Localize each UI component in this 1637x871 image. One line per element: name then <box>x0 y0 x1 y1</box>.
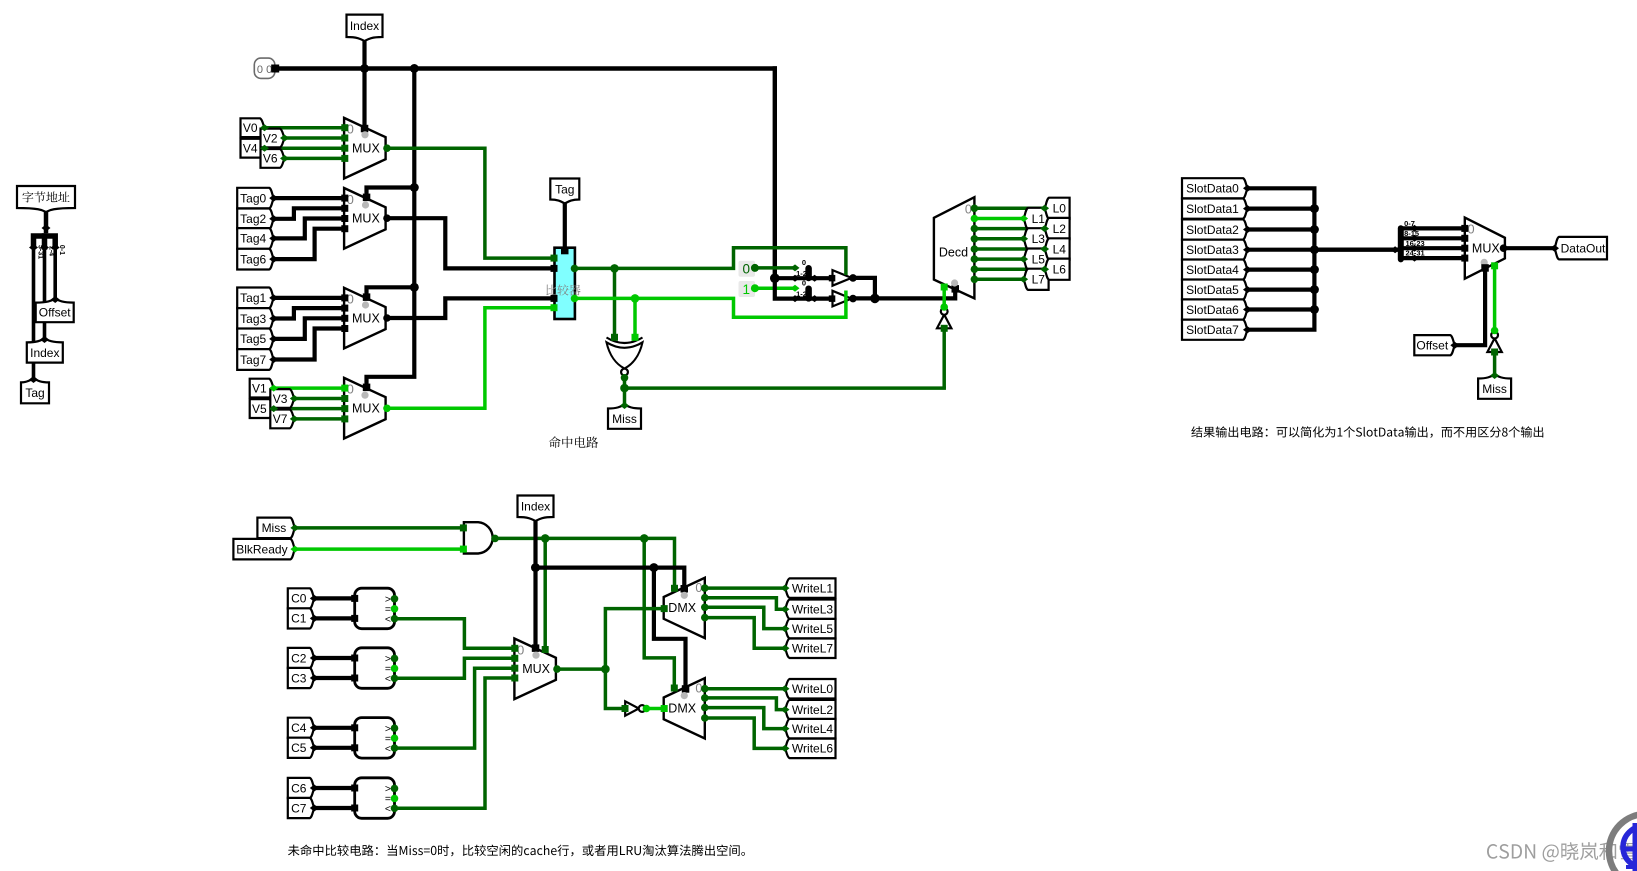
svg-text:L1: L1 <box>1032 212 1046 226</box>
svg-text:WriteL0: WriteL0 <box>792 682 833 696</box>
pin diamond L5 tip <box>1019 256 1028 263</box>
wire S2 leg 8-15 to MUX U7 pin 1 <box>1401 236 1465 240</box>
wire SlotData0 feed <box>1248 188 1315 249</box>
wire main 32-bit bus to splitter S2 <box>1314 247 1398 251</box>
enable dot Decd <box>951 279 958 286</box>
wire D1 out1 to WriteL3 <box>701 594 709 602</box>
tunnel SlotData3 <box>1182 240 1248 260</box>
svg-text:V5: V5 <box>252 402 267 416</box>
wire EQ0 down to XNOR input 1 <box>613 268 617 338</box>
splitter SP1 (address to Tag/Index/Offset) <box>34 236 56 247</box>
wire U1 output to comparator pin A <box>383 144 391 152</box>
wire S2 leg 0-7 to MUX U7 pin 0 <box>1401 226 1465 230</box>
pin diamond DataOut <box>1550 245 1559 252</box>
watermark logo ring <box>1609 814 1637 871</box>
svg-text:C2: C2 <box>291 651 307 665</box>
wire Index select to DMX D1 <box>536 568 685 589</box>
tunnel SlotData1 <box>1182 199 1248 219</box>
decoder U6 Decd <box>934 197 975 298</box>
wire SlotData7 feed <box>1248 250 1315 330</box>
svg-text:SlotData7: SlotData7 <box>1186 323 1239 337</box>
pin diamond V0 <box>260 124 269 131</box>
wire C2 to compare block <box>314 656 354 660</box>
wire U3 output to comparator pin C <box>383 314 391 322</box>
tunnel WriteL3 <box>785 600 836 620</box>
svg-text:WriteL6: WriteL6 <box>792 742 833 756</box>
svg-text:WriteL4: WriteL4 <box>792 722 833 736</box>
junction buffer outputs <box>870 294 880 304</box>
pin diamond SlotData4 <box>1243 266 1252 273</box>
wire N1 output to Decd enable <box>940 303 948 311</box>
pin diamond Tag3 <box>269 315 278 322</box>
wire C5 to compare block <box>314 746 354 750</box>
watermark logo blue mark <box>1623 826 1637 868</box>
wire Miss net to inverter N1 input <box>942 329 946 387</box>
wire SlotData6 feed <box>1248 307 1315 311</box>
tunnel C6 <box>288 778 315 798</box>
wire Tag to comparator top pin <box>563 203 567 250</box>
tunnel WriteL4 <box>785 719 836 739</box>
pin diamond Tag0 <box>269 195 278 202</box>
wire enable branch to MUX U8 <box>543 538 547 649</box>
svg-text:C6: C6 <box>291 781 307 795</box>
wire Miss net east run <box>625 386 945 390</box>
pin diamond C2 <box>310 655 319 662</box>
wire compare3 to MUX U8 pin 2 <box>395 668 515 748</box>
pin diamond WriteL5 <box>781 625 790 632</box>
enable dot D2 <box>681 692 688 699</box>
pin lt output dot C0C1 <box>391 615 399 623</box>
tunnel V2 <box>261 129 285 148</box>
wire select bus down beside MUX column to U4 <box>367 69 415 388</box>
wire SlotData3 feed <box>1248 248 1315 252</box>
junction EQ0 to XNOR <box>610 264 619 273</box>
tunnel V0 <box>241 118 265 137</box>
wire 2-bit constant bus from input pin <box>275 66 775 70</box>
svg-text:L3: L3 <box>1032 232 1046 246</box>
tunnel Tag7 <box>237 349 274 370</box>
tunnel Miss (right section) <box>1478 375 1511 399</box>
enable dot U1 <box>361 131 368 138</box>
probe P0 attach dot <box>751 264 759 272</box>
svg-text:V7: V7 <box>273 412 288 426</box>
svg-text:MUX: MUX <box>352 402 380 416</box>
pin diamond Tag4 <box>269 235 278 242</box>
tunnel L0 <box>1045 198 1070 219</box>
wire D2 out3 to WriteL6 <box>701 714 709 722</box>
pin diamond Tag6 <box>269 256 278 263</box>
tunnel DataOut <box>1555 237 1608 260</box>
pin lt output dot C2C3 <box>391 675 399 683</box>
junction constant-bus branch at x415 <box>410 64 419 73</box>
tunnel Miss (bottom input) <box>257 518 295 539</box>
wire Tag3 to MUX U3 pin 1 <box>274 308 344 318</box>
wire vertical 2-bit bus down to way-splitters <box>773 69 777 279</box>
wire C6 to compare block <box>314 786 354 790</box>
pin gt output dot C0C1 <box>391 595 399 603</box>
pin diamond Index tunnel <box>40 336 49 343</box>
wire N3 output to DMX D2 data input <box>643 705 651 713</box>
pin eq output dot C4C5 <box>391 734 399 742</box>
pin gt output dot C4C5 <box>391 724 399 732</box>
pin diamond L4 tip <box>1040 246 1049 253</box>
op-amp U4 MUX (valid bits odd ways) <box>344 378 386 439</box>
wire comparator output EQ1 net <box>571 295 579 303</box>
wire Tag0 to MUX U2 pin 0 <box>274 196 344 200</box>
tunnel C1 <box>288 608 315 628</box>
tunnel SlotData5 <box>1182 280 1248 300</box>
wire B0 output to select bus <box>849 274 857 282</box>
tunnel L2 <box>1045 218 1070 239</box>
tunnel V4 <box>241 139 265 158</box>
wire Decd out2 to L2 <box>971 225 979 233</box>
tunnel SlotData4 <box>1182 260 1248 280</box>
pin diamond L1 tip <box>1019 215 1028 222</box>
wire compare2 to MUX U8 pin 1 <box>395 658 515 678</box>
pin diamond WriteL1 <box>781 585 790 592</box>
wire U8 output up to DMX D1 data input <box>605 609 663 670</box>
tunnel SlotData0 <box>1182 178 1248 198</box>
wire enable branch to DMX D2 <box>644 538 674 688</box>
pin gt output dot C2C3 <box>391 655 399 663</box>
svg-text:<: < <box>385 803 391 815</box>
wire Tag7 to MUX U3 pin 3 <box>274 329 344 360</box>
pin diamond V4 <box>260 145 269 152</box>
pin diamond SlotData1 <box>1243 205 1252 212</box>
enable dot D1 <box>681 592 688 599</box>
pin diamond Miss bottom <box>290 524 299 531</box>
probe P1 on EQ1 wire <box>739 281 756 297</box>
tunnel L1 <box>1024 208 1049 229</box>
caption 命中电路 <box>549 436 598 448</box>
pin eq output dot C0C1 <box>391 605 399 613</box>
junction Miss net <box>620 384 629 393</box>
pin diamond SlotData0 <box>1243 185 1252 192</box>
comparator U5 比较器 (custom subcircuit) <box>555 248 575 319</box>
svg-text:0: 0 <box>743 262 751 277</box>
svg-text:24-31: 24-31 <box>1406 249 1425 258</box>
wire Decd out4 to L4 <box>971 245 979 253</box>
pin diamond Offset tunnel <box>51 296 60 303</box>
pin diamond Miss right <box>1490 372 1499 379</box>
junction SlotData6 <box>1310 305 1319 314</box>
wire compare4 to MUX U8 pin 3 <box>395 678 515 808</box>
pin lt output dot C6C7 <box>391 805 399 813</box>
svg-text:Miss: Miss <box>262 521 287 535</box>
svg-text:DMX: DMX <box>668 702 696 716</box>
tunnel Tag4 <box>237 228 274 249</box>
splitter S2 spine (32-bit fan out) <box>1398 228 1404 259</box>
svg-text:Decd: Decd <box>939 245 968 259</box>
tunnel WriteL5 <box>785 619 836 639</box>
wire U8 output down to inverter N3 <box>605 669 624 708</box>
junction 2-bit bus into splitter legs <box>770 273 780 283</box>
svg-text:C5: C5 <box>291 741 307 755</box>
pin diamond V7 <box>290 415 299 422</box>
svg-text:Miss: Miss <box>612 412 637 426</box>
wire V5 to MUX U4 pin 2 <box>274 407 344 411</box>
wire select branch to MUX U3 <box>367 287 415 297</box>
pin diamond C3 <box>310 675 319 682</box>
wire SlotData5 feed <box>1248 288 1315 292</box>
demux D2 (even write lines) <box>664 678 705 738</box>
tunnel Index (bottom select) <box>518 496 554 522</box>
wire U2 output to comparator pin B <box>383 214 391 222</box>
junction SlotData4 <box>1310 265 1319 274</box>
tunnel Miss (hit circuit output) <box>608 405 641 429</box>
svg-text:Tag0: Tag0 <box>240 191 266 205</box>
tunnel Tag (top, compare source) <box>550 179 579 204</box>
svg-text:L4: L4 <box>1053 242 1067 256</box>
svg-text:V6: V6 <box>263 152 278 166</box>
comparator block C2/C3 <box>355 648 395 689</box>
pin diamond WriteL7 <box>781 645 790 652</box>
wire V3 to MUX U4 pin 1 <box>294 397 344 401</box>
tunnel V1 <box>250 379 274 398</box>
svg-text:BlkReady: BlkReady <box>236 542 287 556</box>
wire probe P1 to way-splitter S1 bit0 leg <box>755 286 795 290</box>
wire Tag4 to MUX U2 pin 2 <box>274 219 344 239</box>
svg-text:Tag7: Tag7 <box>240 353 266 367</box>
svg-text:SlotData5: SlotData5 <box>1186 283 1239 297</box>
op-amp U1 MUX (valid bits even ways) <box>344 118 386 179</box>
tunnel Tag3 <box>237 308 274 329</box>
wire Decd out0 to L0 <box>971 205 979 213</box>
wire Tag1 to MUX U3 pin 0 <box>274 296 344 300</box>
pin diamond WriteL6 <box>781 745 790 752</box>
pin diamond SlotData5 <box>1243 286 1252 293</box>
wire D2 out0 to WriteL0 <box>701 685 709 693</box>
pin diamond SlotData7 <box>1243 326 1252 333</box>
pin diamond C6 <box>310 785 319 792</box>
comparator block C4/C5 <box>355 718 395 759</box>
svg-text:WriteL3: WriteL3 <box>792 603 833 617</box>
pin diamond WriteL4 <box>781 725 790 732</box>
pin diamond V1 <box>269 385 278 392</box>
wire bus to splitter S0 leg 1-2 and buffer B0 <box>775 276 832 280</box>
svg-text:0-1: 0-1 <box>58 245 65 255</box>
svg-text:Offset: Offset <box>39 306 71 320</box>
pin diamond C0 <box>310 595 319 602</box>
tunnel C3 <box>288 668 315 688</box>
tunnel C5 <box>288 738 315 758</box>
wire Decd out7 to L7 <box>971 276 979 284</box>
junction SlotData5 <box>1310 285 1319 294</box>
tunnel Tag0 <box>237 188 274 209</box>
svg-text:C3: C3 <box>291 671 307 685</box>
wire Decd out3 to L3 <box>971 235 979 243</box>
wire Tag6 to MUX U2 pin 3 <box>274 229 344 259</box>
tunnel WriteL1 <box>785 578 836 598</box>
pin diamond C7 <box>310 805 319 812</box>
tunnel WriteL2 <box>785 700 836 720</box>
svg-text:SlotData2: SlotData2 <box>1186 223 1239 237</box>
pin diamond V6 <box>280 155 289 162</box>
tunnel L7 <box>1024 269 1049 290</box>
svg-text:Tag: Tag <box>555 182 574 196</box>
svg-text:8-15: 8-15 <box>1404 229 1419 238</box>
svg-text:<: < <box>385 614 391 626</box>
wire B1 output to select bus <box>849 295 857 303</box>
svg-text:MUX: MUX <box>352 212 380 226</box>
wire U8 output net <box>553 665 561 673</box>
tunnel V3 <box>270 389 294 408</box>
wire Miss to N2 input <box>1493 353 1497 377</box>
svg-text:Tag2: Tag2 <box>240 212 266 226</box>
pin diamond SlotData6 <box>1243 306 1252 313</box>
wire SlotData1 feed <box>1248 207 1315 211</box>
tunnel L3 <box>1024 228 1049 249</box>
tunnel C4 <box>288 718 315 738</box>
wire Index select vertical to MUX U1 <box>362 40 366 129</box>
svg-text:0: 0 <box>802 258 806 267</box>
junction SlotData2 <box>1310 225 1319 234</box>
svg-text:WriteL5: WriteL5 <box>792 622 833 636</box>
xnor gate G1 (hit detect, points down) <box>607 338 643 344</box>
wire S2 leg 16-23 to MUX U7 pin 2 <box>1401 246 1465 250</box>
svg-text:Index: Index <box>350 19 379 33</box>
wire bus to splitter S1 leg 1-2 and buffer B1 <box>775 278 832 298</box>
junction Index select branch <box>531 563 540 572</box>
svg-text:MUX: MUX <box>522 662 550 676</box>
tunnel Index (left) <box>27 338 63 362</box>
pin diamond L3 tip <box>1019 235 1028 242</box>
junction Index/constant bus <box>360 64 369 73</box>
svg-text:Tag: Tag <box>25 386 44 400</box>
pin diamond L7 tip <box>1019 276 1028 283</box>
svg-text:L6: L6 <box>1053 263 1067 277</box>
wire Offset to U7 select <box>1455 268 1485 345</box>
tunnel Tag2 <box>237 209 274 230</box>
svg-text:SlotData4: SlotData4 <box>1186 263 1239 277</box>
pin diamond Offset right <box>1450 342 1459 349</box>
wire U7 output to DataOut <box>1500 244 1508 252</box>
pin diamond BlkReady <box>290 546 299 553</box>
tunnel C2 <box>288 648 315 668</box>
svg-text:WriteL2: WriteL2 <box>792 703 833 717</box>
pin diamond Tag7 <box>269 356 278 363</box>
wire Miss to AND gate G2 <box>295 526 464 530</box>
pin eq output dot C6C7 <box>391 795 399 803</box>
tunnel WriteL7 <box>785 639 836 659</box>
pin diamond Tag1 <box>269 294 278 301</box>
svg-text:Tag5: Tag5 <box>240 332 266 346</box>
caption 结果输出电路 <box>1191 426 1543 438</box>
pin diamond WriteL0 <box>781 685 790 692</box>
pin diamond SlotData3 <box>1243 246 1252 253</box>
tunnel WriteL0 <box>785 679 836 699</box>
svg-text:Index: Index <box>521 500 550 514</box>
tunnel Offset (left) <box>36 299 74 323</box>
svg-text:SlotData0: SlotData0 <box>1186 182 1239 196</box>
junction enable to MUX U8 <box>541 534 550 543</box>
pin diamond Tag5 <box>269 335 278 342</box>
op-amp U2 MUX (tag even ways) <box>344 188 386 249</box>
svg-text:Miss: Miss <box>1482 382 1507 396</box>
tunnel V7 <box>270 410 294 429</box>
pin diamond V3 <box>290 395 299 402</box>
wire N2 output to U7 enable <box>1491 327 1499 335</box>
svg-text:V1: V1 <box>252 381 267 395</box>
wire S2 leg 24-31 to MUX U7 pin 3 <box>1401 256 1465 260</box>
wire SlotData2 feed <box>1248 227 1315 231</box>
svg-text:2-4: 2-4 <box>48 246 55 256</box>
svg-text:5-31: 5-31 <box>37 245 44 259</box>
wire select branch to MUX U2 <box>367 188 415 198</box>
wire G1 output node Miss <box>621 374 629 382</box>
pin diamond WriteL2 <box>781 706 790 713</box>
svg-text:Tag4: Tag4 <box>240 232 266 246</box>
svg-text:MUX: MUX <box>352 311 380 325</box>
svg-text:V4: V4 <box>243 142 258 156</box>
wire Index select net vertical <box>533 520 537 648</box>
svg-text:0: 0 <box>1467 221 1474 236</box>
enable dot U4 <box>361 392 368 399</box>
svg-text:1-2: 1-2 <box>796 269 807 278</box>
pin diamond L2 tip <box>1040 225 1049 232</box>
junction EQ1 to XNOR <box>631 294 640 303</box>
wire C4 to compare block <box>314 726 354 730</box>
wire select bus to decoder Decd <box>853 290 955 299</box>
pin gt output dot C6C7 <box>391 785 399 793</box>
label 比较器 <box>546 284 580 295</box>
svg-text:C7: C7 <box>291 801 307 815</box>
svg-text:SlotData6: SlotData6 <box>1186 303 1239 317</box>
pin diamond C5 <box>310 744 319 751</box>
pin diamond V5 <box>269 405 278 412</box>
wire compare1 to MUX U8 pin 0 <box>395 619 515 649</box>
svg-text:L0: L0 <box>1053 202 1067 216</box>
svg-text:L2: L2 <box>1053 222 1067 236</box>
pin diamond SlotData2 <box>1243 226 1252 233</box>
comparator block C6/C7 <box>355 778 395 819</box>
tunnel V6 <box>261 149 285 168</box>
tunnel V5 <box>250 399 274 418</box>
pin diamond Tag2 <box>269 215 278 222</box>
svg-text:16-23: 16-23 <box>1406 239 1425 248</box>
svg-text:0: 0 <box>257 64 263 76</box>
wire Tag2 to MUX U2 pin 1 <box>274 208 344 219</box>
svg-text:SlotData3: SlotData3 <box>1186 243 1239 257</box>
tunnel C0 <box>288 588 315 608</box>
tunnel Tag5 <box>237 329 274 350</box>
wire D1 out2 to WriteL5 <box>701 604 709 612</box>
pin diamond V2 <box>280 135 289 142</box>
svg-text:MUX: MUX <box>352 142 380 156</box>
svg-text:V2: V2 <box>263 131 278 145</box>
and gate G2 <box>464 522 493 553</box>
comparator block C0/C1 <box>355 588 395 629</box>
wire C1 to compare block <box>314 616 354 620</box>
svg-text:Index: Index <box>30 346 59 360</box>
pin eq output dot C2C3 <box>391 665 399 673</box>
input label 字节地址 (byte address) <box>17 186 75 212</box>
svg-text:Offset: Offset <box>1416 339 1448 353</box>
watermark CSDN text <box>1487 842 1636 862</box>
wire C0 to compare block <box>314 596 354 600</box>
op-amp U3 MUX (tag odd ways) <box>344 288 386 349</box>
pin diamond WriteL3 <box>781 606 790 613</box>
pin diamond L6 tip <box>1040 266 1049 273</box>
pin diamond Miss tunnel <box>620 402 629 409</box>
input pin 0 0 (2-bit constant) <box>254 58 274 78</box>
tunnel SlotData7 <box>1182 320 1248 340</box>
svg-text:WriteL7: WriteL7 <box>792 642 833 656</box>
wire bus from 字节地址 to splitter SP1 <box>44 210 49 231</box>
svg-text:V3: V3 <box>273 392 288 406</box>
wire Tag5 to MUX U3 pin 2 <box>274 318 344 339</box>
wire D2 out1 to WriteL2 <box>701 694 709 702</box>
